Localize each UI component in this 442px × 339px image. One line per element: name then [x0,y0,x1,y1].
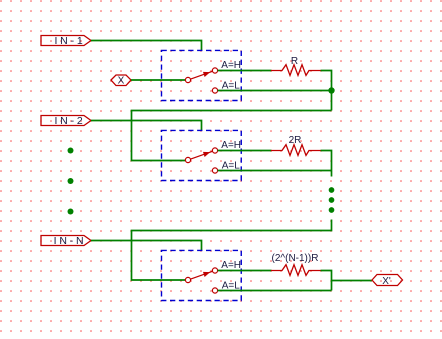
wire X to SW1 common [131,79,185,81]
junction node A [328,87,334,93]
input tag IN-N [41,235,91,247]
wire SW1 A=L to node A [218,90,332,92]
input tag IN-1 [41,35,91,47]
switch SW-N dashed outline [162,250,242,300]
wire node B continuation to SW-N common [132,220,332,281]
switch SW1 dashed outline [162,50,242,100]
ellipsis dots right (continuation of ladder) [329,187,335,213]
wire R2 to node B (vertical) [321,151,332,177]
svg-text:IN-1: IN-1 [54,35,85,47]
switch SW2 dashed outline [162,130,242,180]
wire IN-N to switch SW-N control [91,241,202,251]
wire SW-N A=H to resistor RN [218,270,272,272]
wire SW-N A=L to node OUT [218,290,332,292]
svg-text:R: R [291,56,298,67]
wire IN-1 to switch SW1 control [91,41,202,51]
svg-text:IN-2: IN-2 [54,115,85,127]
wire node OUT to output tag X' [332,280,373,282]
svg-text:IN-N: IN-N [54,235,87,247]
switch SW2 pole and contacts [185,148,217,173]
wire IN-2 to switch SW2 control [91,121,202,131]
svg-text:A=H: A=H [221,260,241,271]
input tag IN-2 [41,115,91,127]
wire SW2 A=H to resistor R2 [218,150,272,152]
output tag X' [372,275,403,287]
svg-text:X': X' [382,276,391,287]
wire SW2 A=L to node B [218,170,332,172]
svg-text:2R: 2R [289,135,302,146]
resistor R1 [271,65,321,76]
wire R1 to node A (vertical) [321,71,332,111]
svg-text:A=H: A=H [221,60,241,71]
wire RN to node OUT (vertical) [321,271,332,291]
ellipsis dots left (more inputs) [68,148,74,215]
switch SW-N pole and contacts [185,268,217,293]
resistor RN [271,265,321,276]
svg-text:X: X [118,76,125,87]
wire node A to SW2 common [132,111,332,161]
svg-text:(2^(N-1))R: (2^(N-1))R [272,253,319,264]
switch SW1 pole and contacts [185,68,217,93]
resistor R2 [271,145,321,156]
wire SW1 A=H to resistor R1 [218,70,272,72]
input tag X [111,75,131,87]
svg-text:A=H: A=H [221,140,241,151]
